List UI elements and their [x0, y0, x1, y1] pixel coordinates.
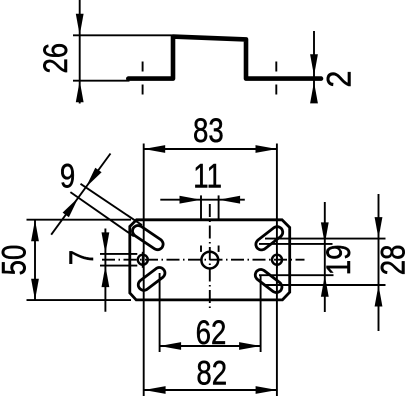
- svg-text:11: 11: [193, 157, 222, 196]
- profile hole centerline right: [275, 62, 277, 97]
- dimension 9 extension lines: [70, 184, 141, 237]
- dimension 9 line and arrows: [51, 154, 110, 235]
- dimension 11 extension lines: [201, 195, 219, 252]
- vertical centerline: [209, 204, 211, 308]
- dimension 82 line and arrows: [144, 386, 277, 394]
- profile section (hat channel): [128, 37, 321, 79]
- dimension 62 extension lines: [160, 273, 261, 352]
- svg-text:9: 9: [60, 156, 75, 195]
- dimension 2 line and arrows: [310, 31, 318, 103]
- svg-text:62: 62: [196, 313, 227, 352]
- dimension 26 extension lines: [73, 35, 172, 80]
- svg-text:7: 7: [62, 250, 101, 265]
- plate outline with chamfered corners: [130, 220, 290, 300]
- dimension 26 line and arrows: [76, 0, 84, 104]
- slot upper-left: [133, 226, 164, 250]
- dimension 7 extension lines: [100, 254, 137, 266]
- svg-text:82: 82: [196, 353, 227, 392]
- central hole: [201, 252, 218, 269]
- profile hole centerline left: [142, 62, 144, 97]
- dimension 50 line and arrows: [31, 220, 39, 301]
- dimension 28 line and arrows: [375, 194, 383, 331]
- bend line left / ext 83-82: [143, 144, 145, 397]
- small hole right: [272, 255, 282, 265]
- bend line right / ext 83-82: [276, 144, 278, 397]
- dimension 11 line and arrows: [160, 196, 245, 204]
- slot lower-left: [138, 268, 165, 291]
- slot lower-right: [255, 270, 282, 293]
- dimension 62 line and arrows: [160, 342, 261, 350]
- dimension 19 line and arrows: [321, 202, 329, 312]
- dimension 50 extension lines: [27, 220, 132, 300]
- small hole left: [138, 255, 148, 265]
- dimension 83 line and arrows: [144, 145, 277, 153]
- slot upper-right: [256, 227, 283, 250]
- horizontal centerline: [102, 259, 305, 261]
- dimension 7 line and arrows: [102, 229, 110, 312]
- svg-text:19: 19: [319, 245, 358, 276]
- svg-text:83: 83: [193, 111, 224, 150]
- svg-text:50: 50: [0, 245, 33, 276]
- svg-text:2: 2: [320, 71, 358, 88]
- svg-text:28: 28: [373, 245, 411, 276]
- dimension 19 extension lines: [259, 244, 334, 275]
- small hole right center tick: [276, 252, 278, 268]
- dimension 28 extension lines: [265, 239, 386, 285]
- small hole left center tick: [142, 252, 144, 268]
- svg-text:26: 26: [36, 43, 75, 74]
